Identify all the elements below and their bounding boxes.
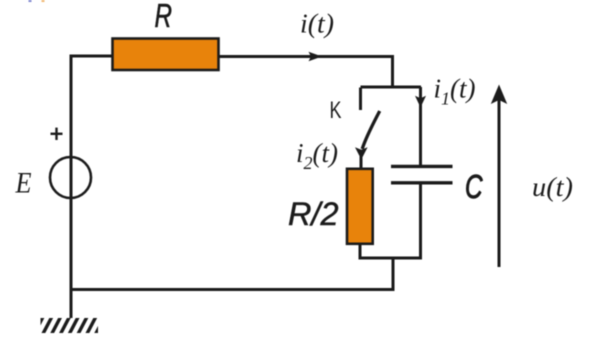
svg-text:i1(t): i1(t) (434, 74, 476, 109)
svg-text:i2(t): i2(t) (296, 138, 338, 173)
svg-text:R: R (155, 0, 173, 34)
svg-text:u(t): u(t) (532, 172, 573, 202)
svg-text:C: C (465, 168, 483, 205)
svg-text:R/2: R/2 (288, 196, 339, 232)
svg-text:E: E (15, 167, 32, 200)
svg-text:K: K (330, 97, 342, 124)
svg-text:i(t): i(t) (300, 9, 334, 39)
